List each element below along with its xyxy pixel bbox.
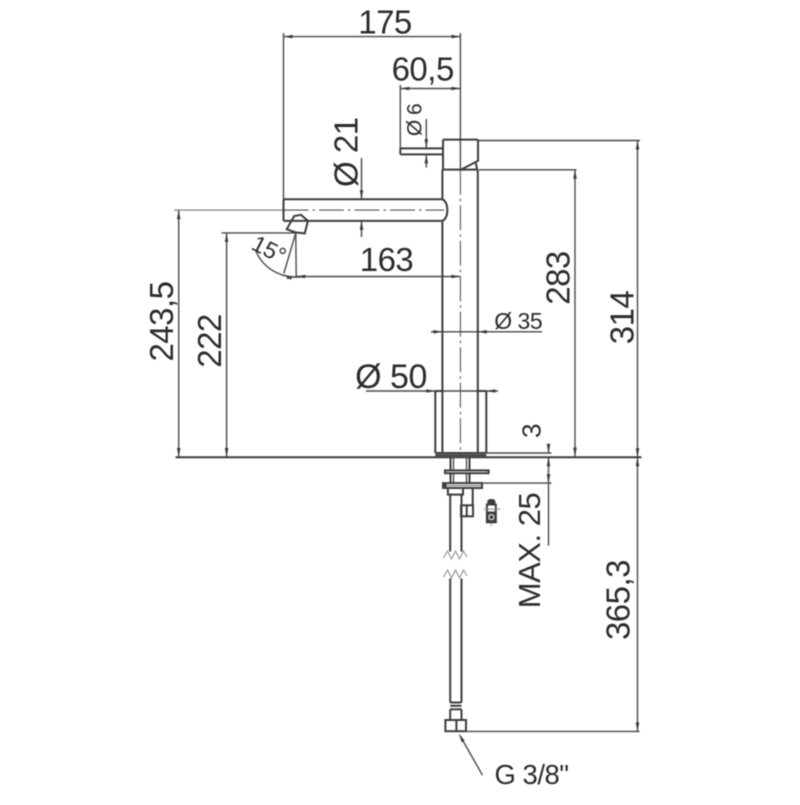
svg-text:Ø 50: Ø 50 (355, 358, 427, 396)
svg-text:MAX. 25: MAX. 25 (512, 493, 547, 608)
svg-text:314: 314 (604, 291, 641, 345)
svg-text:3: 3 (517, 424, 547, 438)
svg-text:Ø 6: Ø 6 (404, 104, 427, 136)
svg-text:243,5: 243,5 (143, 281, 180, 361)
svg-text:365,3: 365,3 (600, 560, 637, 640)
svg-text:163: 163 (360, 241, 414, 278)
svg-text:60,5: 60,5 (392, 51, 454, 88)
svg-text:G 3/8": G 3/8" (495, 759, 569, 790)
svg-text:283: 283 (540, 251, 577, 305)
svg-text:175: 175 (358, 4, 412, 41)
svg-text:222: 222 (191, 314, 228, 368)
svg-text:Ø 21: Ø 21 (328, 117, 365, 187)
svg-text:Ø 35: Ø 35 (494, 308, 542, 334)
